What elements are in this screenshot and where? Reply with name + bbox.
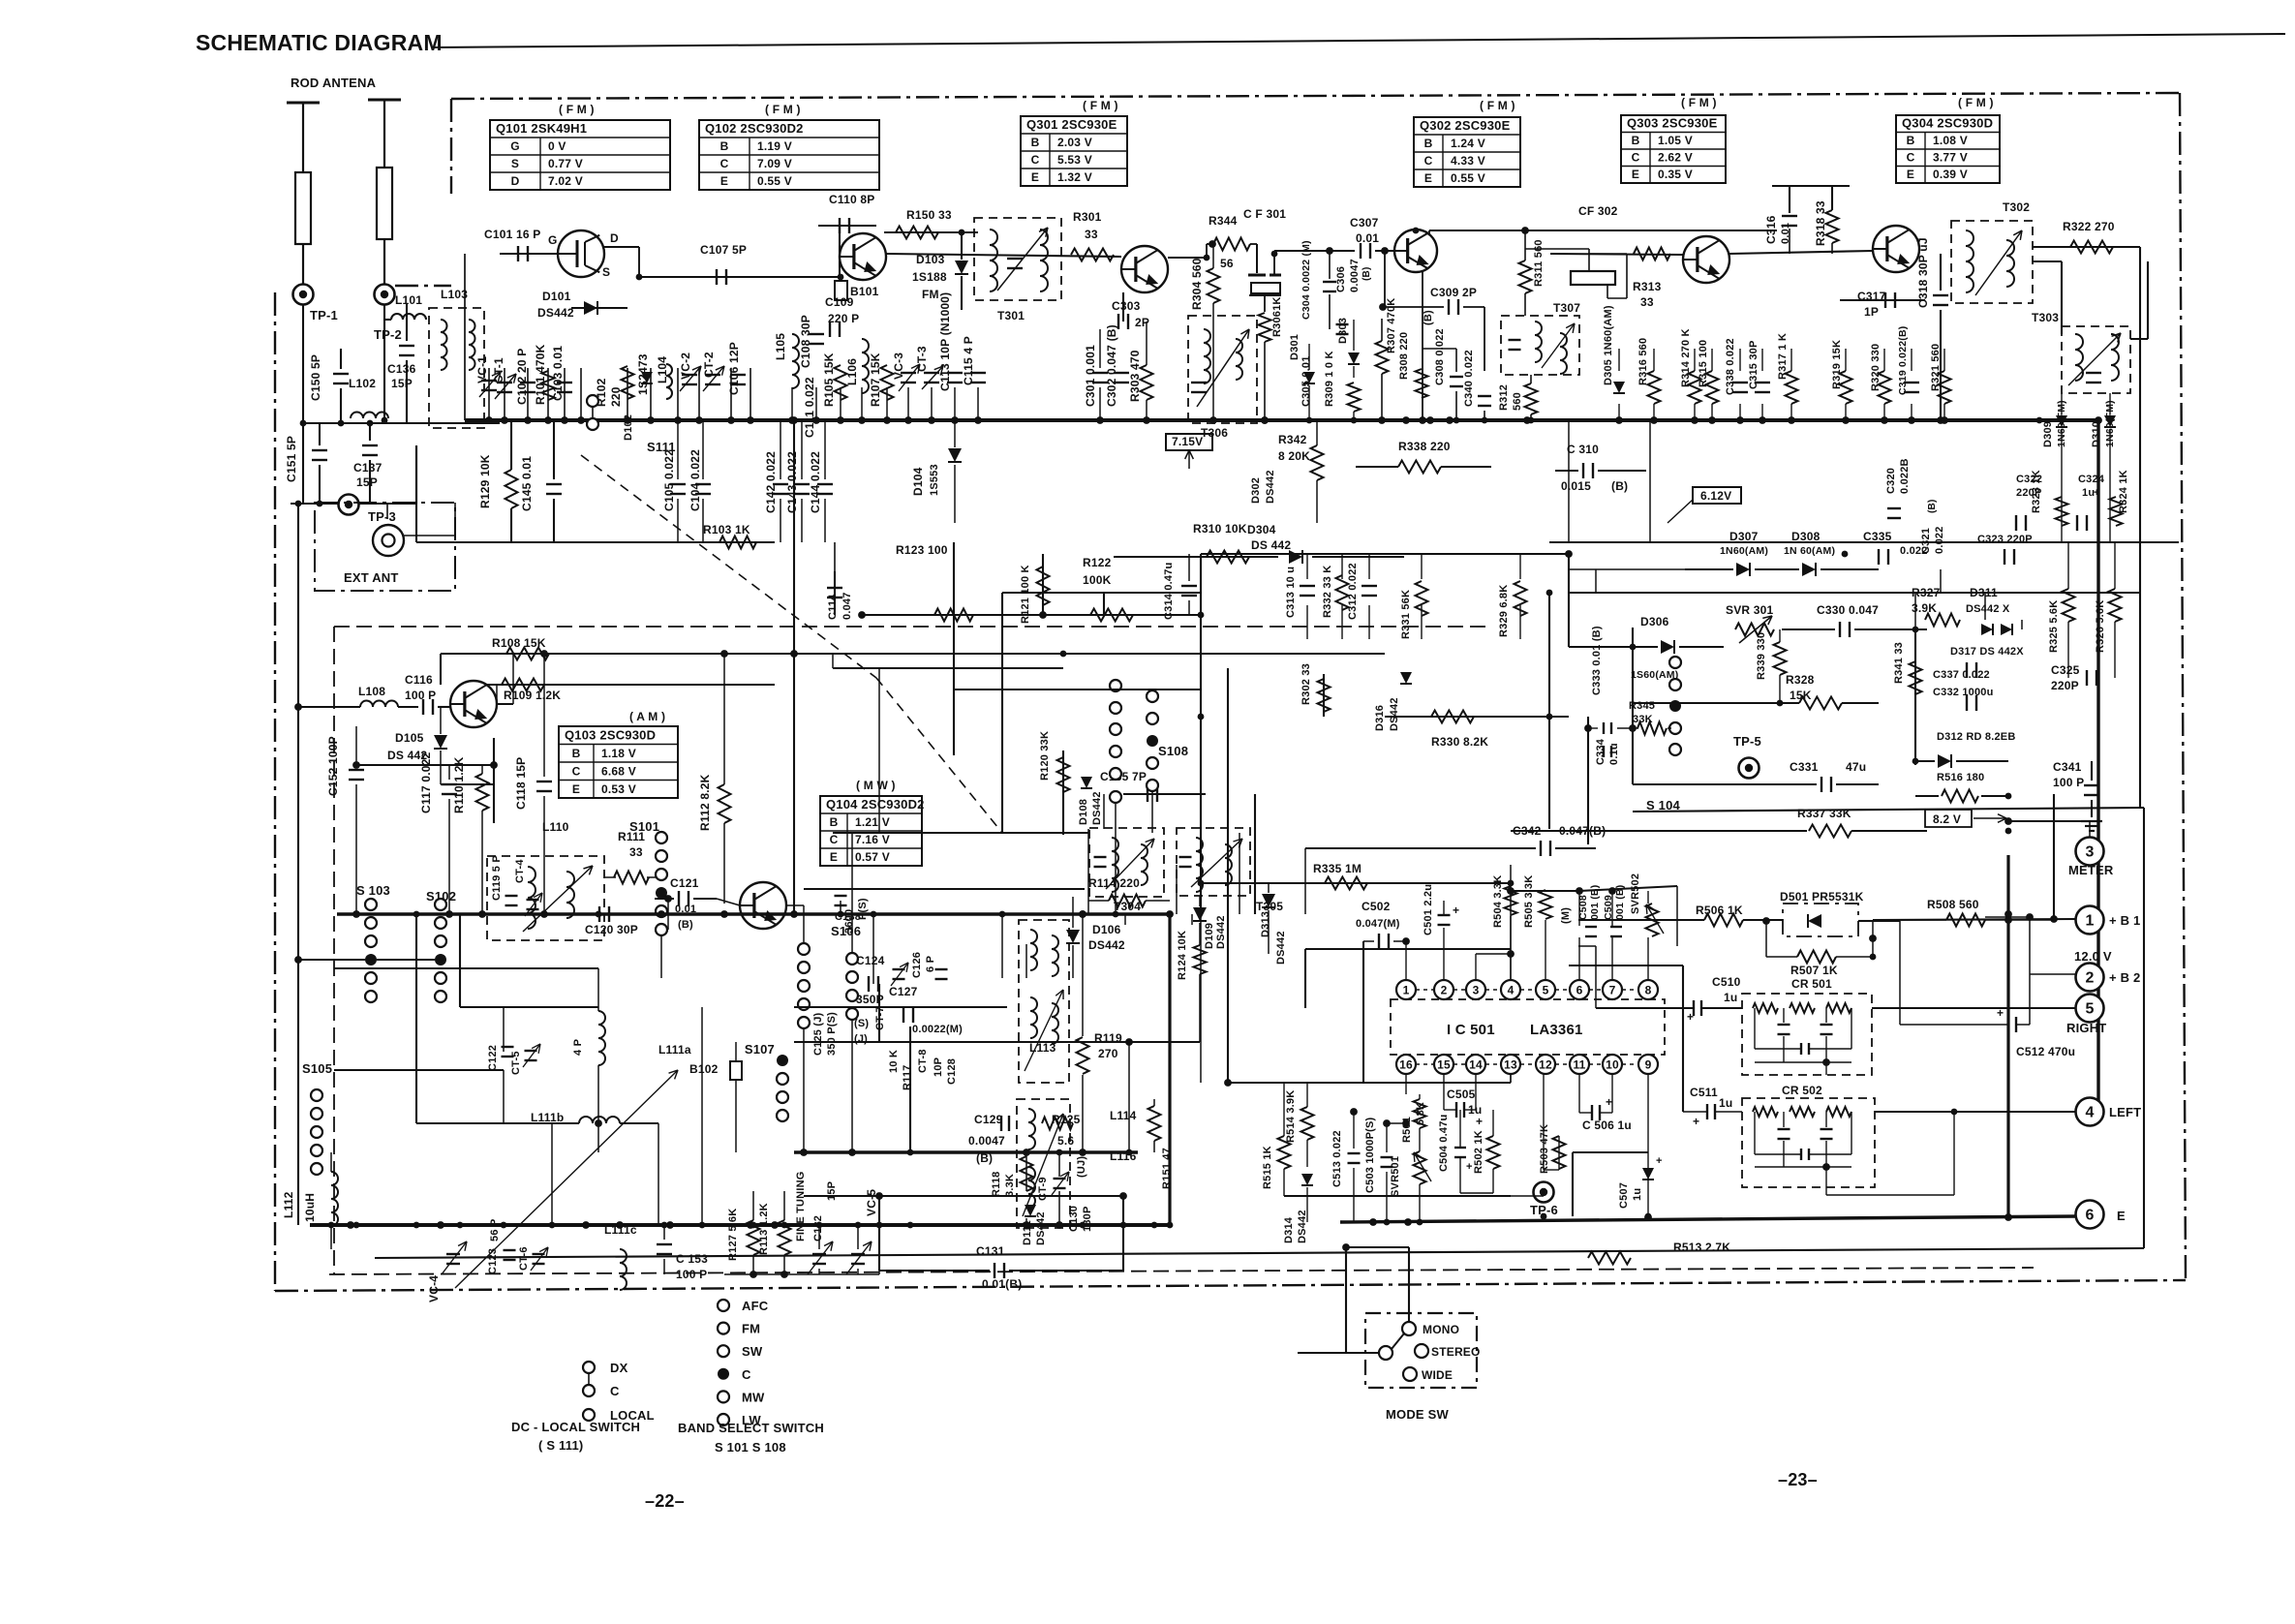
resistor R109 bbox=[502, 679, 544, 691]
svg-text:CT-9: CT-9 bbox=[1037, 1177, 1049, 1201]
svg-text:B: B bbox=[1907, 134, 1915, 147]
resistor R345 sym bbox=[1637, 722, 1667, 735]
resistor R322 bbox=[2070, 241, 2113, 254]
leader 6.12V bbox=[1668, 500, 1693, 523]
capacitor C145 bbox=[546, 483, 562, 485]
svg-text:C304 0.0022 (M): C304 0.0022 (M) bbox=[1300, 240, 1312, 320]
resistor R119 sym bbox=[1077, 1037, 1089, 1074]
resistor R307 sym bbox=[1376, 341, 1389, 374]
capacitor C330 bbox=[1839, 622, 1841, 637]
diode D313 sym bbox=[1262, 894, 1275, 907]
resistor R339 sym bbox=[1774, 642, 1787, 675]
wire Q302 collector bbox=[1428, 230, 1430, 235]
diode D102 bbox=[641, 372, 653, 383]
mode contact MONO bbox=[1402, 1322, 1416, 1335]
wire ext ant top bbox=[386, 503, 388, 519]
svg-text:0.022: 0.022 bbox=[1934, 526, 1945, 554]
svg-text:SVR 301: SVR 301 bbox=[1726, 603, 1774, 617]
resistor R344 bbox=[1213, 238, 1250, 251]
resistor R123 sym bbox=[934, 609, 973, 622]
wire drop bbox=[650, 368, 652, 420]
wire drop bbox=[750, 368, 751, 420]
svg-text:1S553: 1S553 bbox=[929, 464, 940, 496]
wire bbox=[1511, 890, 1579, 892]
wire pin13 stub bbox=[1510, 1074, 1512, 1083]
wire bbox=[1956, 760, 2008, 762]
wire bbox=[909, 1026, 911, 1152]
resistor R335 bbox=[1325, 877, 1367, 890]
wire bbox=[1755, 568, 1799, 570]
svg-text:CT-6: CT-6 bbox=[518, 1246, 530, 1271]
AM bus junction bbox=[1113, 911, 1119, 918]
wire bbox=[1845, 349, 1847, 371]
capacitor C135 bbox=[1147, 786, 1148, 802]
bottom bus junction bbox=[661, 1222, 668, 1229]
svg-text:MONO: MONO bbox=[1423, 1323, 1459, 1336]
resistor R329 bbox=[1515, 581, 1527, 616]
wire bbox=[1618, 404, 1620, 420]
svg-text:C331: C331 bbox=[1790, 760, 1819, 774]
wire drop bbox=[488, 368, 490, 420]
resistor R121 bbox=[1037, 567, 1050, 605]
wire bbox=[1124, 914, 1126, 925]
svg-text:L112: L112 bbox=[282, 1191, 295, 1218]
wire bbox=[1595, 946, 1597, 1008]
wire to RIGHT bbox=[1872, 1007, 2076, 1009]
svg-text:C303: C303 bbox=[1112, 299, 1141, 313]
svg-text:L111a: L111a bbox=[658, 1043, 691, 1057]
wire right long row bbox=[1569, 592, 2140, 594]
svg-text:R324 1K: R324 1K bbox=[2118, 470, 2129, 513]
IC pin 6 bbox=[1570, 980, 1589, 999]
bus junction bbox=[625, 417, 631, 424]
svg-text:0.01: 0.01 bbox=[1356, 231, 1379, 245]
svg-text:C308 0.022: C308 0.022 bbox=[1434, 328, 1446, 385]
gang dashed diagonal 2 bbox=[876, 678, 1002, 833]
wire C502 row top bbox=[1305, 948, 1511, 950]
capacitor C301 bbox=[1092, 372, 1108, 374]
wire bbox=[460, 1006, 598, 1008]
wire bbox=[1519, 554, 1521, 579]
wire bbox=[1341, 554, 1343, 579]
capacitor C308 sym bbox=[1450, 376, 1463, 378]
trimmer CT-7 sym bbox=[893, 968, 905, 970]
wire antenna row bbox=[303, 422, 500, 424]
resistor R129 bbox=[505, 470, 518, 508]
IC pin 11 bbox=[1570, 1055, 1589, 1074]
wire bbox=[334, 1069, 504, 1071]
diode D105 bbox=[434, 735, 447, 749]
wire drop bbox=[886, 387, 888, 420]
svg-text:1: 1 bbox=[1403, 984, 1410, 997]
svg-text:C116: C116 bbox=[405, 673, 433, 687]
svg-text:1.05 V: 1.05 V bbox=[1658, 134, 1693, 147]
wire collector row bbox=[1429, 230, 1777, 231]
wire bbox=[416, 1122, 579, 1124]
svg-text:6.68 V: 6.68 V bbox=[601, 765, 636, 779]
capacitor C150 bbox=[333, 373, 349, 375]
wire bbox=[1790, 349, 1792, 371]
bottom bus junction bbox=[750, 1222, 757, 1229]
resistor R112 bbox=[719, 784, 731, 823]
resistor R504 sym bbox=[1505, 886, 1517, 915]
long thin bottom wire bbox=[375, 1248, 2144, 1258]
diode D304 bbox=[1289, 550, 1302, 564]
svg-text:(B): (B) bbox=[678, 919, 693, 931]
wire TP-3 row bbox=[291, 503, 338, 505]
svg-text:16: 16 bbox=[1399, 1058, 1413, 1072]
svg-text:2.62 V: 2.62 V bbox=[1658, 151, 1693, 165]
bus junction bbox=[728, 417, 735, 424]
svg-text:R331 56K: R331 56K bbox=[1400, 590, 1412, 639]
inductor L105 bbox=[792, 334, 799, 388]
svg-text:C118 15P: C118 15P bbox=[514, 757, 528, 810]
voltage table Q304 bbox=[1896, 115, 2000, 183]
wire bbox=[1653, 349, 1655, 371]
wire bbox=[1694, 349, 1696, 371]
svg-text:C132: C132 bbox=[812, 1215, 824, 1241]
wire bbox=[1899, 921, 1901, 1025]
svg-text:R311 560: R311 560 bbox=[1533, 239, 1545, 287]
voltage table Q301 bbox=[1021, 116, 1127, 186]
terminal 1 +B1 bbox=[2076, 906, 2104, 935]
svg-text:R515 1K: R515 1K bbox=[1262, 1146, 1273, 1189]
wire bbox=[2147, 261, 2149, 339]
svg-text:C505: C505 bbox=[1447, 1088, 1476, 1101]
capacitor C123 sym bbox=[504, 1249, 516, 1251]
wire bbox=[1596, 1007, 1694, 1009]
bus junction bbox=[1379, 417, 1386, 424]
wire bbox=[878, 984, 880, 1042]
svg-text:I C 501: I C 501 bbox=[1447, 1022, 1495, 1038]
mode switch box bbox=[1365, 1313, 1477, 1388]
svg-text:VC-5: VC-5 bbox=[865, 1189, 878, 1216]
svg-text:C337 0.022: C337 0.022 bbox=[1933, 669, 1990, 681]
svg-text:4: 4 bbox=[2085, 1105, 2094, 1121]
resistor bbox=[1689, 371, 1701, 404]
svg-text:C504 0.47u: C504 0.47u bbox=[1438, 1115, 1450, 1172]
wire R330 row bbox=[1385, 716, 1569, 718]
voltage table Q102 bbox=[699, 120, 879, 190]
wire bbox=[2061, 261, 2063, 334]
svg-text:220 P: 220 P bbox=[828, 312, 859, 325]
heavy vertical METER bbox=[2006, 855, 2009, 1218]
svg-text:3: 3 bbox=[2085, 844, 2094, 861]
svg-text:C106 12P: C106 12P bbox=[727, 342, 741, 395]
bus junction bbox=[1759, 417, 1766, 424]
capacitor C302 bbox=[1114, 372, 1129, 374]
svg-text:G: G bbox=[548, 233, 558, 247]
wire D101 row bbox=[571, 307, 627, 309]
svg-text:C105 0.022: C105 0.022 bbox=[662, 449, 676, 511]
svg-text:L101: L101 bbox=[395, 293, 422, 307]
svg-text:R344: R344 bbox=[1209, 214, 1238, 228]
wire bbox=[1761, 404, 1763, 420]
svg-text:D105: D105 bbox=[395, 731, 424, 745]
svg-text:L114: L114 bbox=[1110, 1109, 1137, 1122]
svg-text:DS442: DS442 bbox=[1265, 470, 1276, 504]
svg-text:(B): (B) bbox=[1611, 479, 1628, 493]
wire bbox=[1858, 920, 1873, 922]
svg-text:13: 13 bbox=[1504, 1058, 1517, 1072]
transistor Q301 bbox=[1121, 246, 1168, 292]
wire C334 col bbox=[1587, 717, 1589, 844]
wire pin1 stub bbox=[1405, 941, 1407, 980]
svg-text:4 P: 4 P bbox=[572, 1039, 584, 1056]
svg-text:L102: L102 bbox=[349, 377, 376, 390]
svg-text:DS442: DS442 bbox=[1088, 938, 1125, 952]
wire EXT ANT up bbox=[415, 445, 417, 504]
capacitor C118 bbox=[536, 781, 552, 782]
test point TP-3 bbox=[339, 495, 359, 515]
wire bbox=[340, 349, 342, 369]
svg-text:MODE SW: MODE SW bbox=[1386, 1407, 1449, 1422]
wire pin11 stub bbox=[1578, 1074, 1580, 1113]
bottom bus junction bbox=[1167, 1222, 1174, 1229]
capacitor C127 sym bbox=[903, 1007, 904, 1023]
svg-text:C115 4 P: C115 4 P bbox=[962, 336, 975, 385]
svg-text:E: E bbox=[1632, 168, 1639, 181]
IC pin 3 bbox=[1466, 980, 1485, 999]
wire R341 col bbox=[1914, 629, 1916, 765]
resistor bbox=[1706, 371, 1719, 404]
svg-text:C: C bbox=[742, 1367, 751, 1382]
AGC long wire bbox=[441, 653, 1385, 655]
wire bbox=[833, 832, 1002, 834]
wire drop bbox=[815, 387, 817, 420]
svg-text:C121: C121 bbox=[670, 876, 699, 890]
bottom bus junction bbox=[907, 1222, 914, 1229]
wire bbox=[1943, 349, 1945, 371]
wire bbox=[1940, 569, 1942, 593]
resistor R120 bbox=[1057, 757, 1070, 792]
svg-text:R127 5.6K: R127 5.6K bbox=[727, 1209, 739, 1261]
svg-text:10P: 10P bbox=[933, 1057, 944, 1077]
wire bbox=[1789, 229, 1790, 254]
bus junction bbox=[1909, 417, 1915, 424]
resistor R311 sym bbox=[1519, 260, 1532, 293]
svg-text:2.03 V: 2.03 V bbox=[1057, 136, 1092, 149]
svg-text:C117 0.022: C117 0.022 bbox=[419, 751, 433, 813]
svg-text:9: 9 bbox=[1645, 1058, 1652, 1072]
svg-text:S108: S108 bbox=[1158, 744, 1188, 758]
wire bbox=[1782, 628, 1835, 630]
terminal 6 E bbox=[2076, 1201, 2104, 1229]
resistor bbox=[1840, 371, 1852, 404]
EXT ANT enclosure bbox=[315, 503, 455, 591]
capacitor C325 bbox=[2086, 670, 2088, 686]
wire bbox=[1421, 554, 1423, 579]
wire bbox=[1685, 568, 1733, 570]
svg-text:R301: R301 bbox=[1073, 210, 1102, 224]
wire bbox=[1569, 646, 1658, 648]
resistor R502 sym bbox=[1487, 1136, 1500, 1169]
IC pin 4 bbox=[1501, 980, 1520, 999]
svg-text:2P: 2P bbox=[1135, 316, 1149, 329]
svg-text:4.33 V: 4.33 V bbox=[1451, 154, 1485, 168]
capacitor C101 bbox=[517, 246, 519, 261]
svg-text:6 P: 6 P bbox=[925, 956, 936, 972]
resistor R507 sym bbox=[1797, 951, 1836, 964]
resistor R324 sym bbox=[2110, 497, 2123, 526]
diode D312 bbox=[1938, 754, 1951, 768]
svg-text:( S 111): ( S 111) bbox=[538, 1438, 583, 1453]
capacitor C320 bbox=[1887, 507, 1901, 509]
resistor bbox=[1648, 371, 1661, 404]
svg-text:1N 60(AM): 1N 60(AM) bbox=[1784, 545, 1835, 557]
border top dash-dot bbox=[451, 93, 2180, 99]
wire bbox=[1151, 792, 1153, 833]
bottom bus junction bbox=[1120, 1222, 1127, 1229]
ground bbox=[2081, 820, 2102, 822]
diode bbox=[1613, 382, 1625, 393]
capacitor C122 sym bbox=[502, 1046, 514, 1048]
resistor in CR501 bbox=[1753, 1003, 1778, 1013]
wire C511 feed bbox=[1682, 965, 1684, 1112]
wire C317 row bbox=[1840, 299, 1925, 301]
bus junction bbox=[525, 417, 532, 424]
svg-text:DS442: DS442 bbox=[1275, 931, 1287, 965]
varicap VC-5 sym bbox=[851, 1253, 865, 1255]
wire bbox=[1122, 292, 1124, 322]
resistor R505 sym bbox=[1540, 890, 1552, 919]
svg-text:C127: C127 bbox=[889, 985, 918, 998]
potentiometer SVR501 sym bbox=[1414, 1151, 1426, 1184]
svg-text:33: 33 bbox=[1640, 295, 1654, 309]
capacitor C137 bbox=[362, 444, 378, 446]
band select legend column bbox=[718, 1300, 729, 1311]
svg-text:100 P: 100 P bbox=[405, 689, 436, 702]
wire drop bbox=[977, 387, 979, 420]
wire bbox=[1001, 914, 1003, 978]
bottom bus junction bbox=[1151, 1222, 1158, 1229]
svg-text:0.047(M): 0.047(M) bbox=[1356, 918, 1400, 930]
svg-text:R3061K: R3061K bbox=[1271, 296, 1283, 337]
svg-text:1.19 V: 1.19 V bbox=[757, 139, 792, 153]
svg-text:C503 1000P(S): C503 1000P(S) bbox=[1364, 1117, 1376, 1193]
svg-text:C512 470u: C512 470u bbox=[2016, 1045, 2075, 1058]
svg-text:R341 33: R341 33 bbox=[1893, 642, 1905, 684]
svg-text:R129 10K: R129 10K bbox=[478, 454, 492, 508]
diode D501 sym bbox=[1808, 914, 1821, 928]
IC 501 LA3361 package bbox=[1391, 999, 1665, 1055]
resistor R513 sym bbox=[1588, 1252, 1631, 1265]
svg-text:R123 100: R123 100 bbox=[896, 543, 948, 557]
wire right row b bbox=[1549, 541, 2041, 543]
svg-text:CF 302: CF 302 bbox=[1578, 204, 1618, 218]
capacitor C104 bbox=[695, 483, 711, 485]
wire bbox=[1368, 605, 1370, 639]
bus junction bbox=[884, 417, 891, 424]
wire pin16 stub bbox=[1405, 1074, 1407, 1094]
svg-text:10 K: 10 K bbox=[888, 1050, 900, 1073]
svg-text:C 506 1u: C 506 1u bbox=[1582, 1118, 1632, 1132]
svg-text:WIDE: WIDE bbox=[1422, 1368, 1453, 1382]
capacitor C504 sym bbox=[1454, 1147, 1466, 1149]
capacitor C306 sym bbox=[1336, 323, 1349, 325]
resistor R302 bbox=[1318, 679, 1331, 712]
svg-text:D301: D301 bbox=[1289, 334, 1300, 360]
wire R122 row bbox=[862, 614, 1201, 616]
wire bbox=[1009, 1270, 1123, 1272]
svg-text:S107: S107 bbox=[745, 1042, 775, 1057]
svg-text:0.53 V: 0.53 V bbox=[601, 782, 636, 796]
svg-text:Q104 2SC930D2: Q104 2SC930D2 bbox=[826, 797, 925, 812]
wire bbox=[1511, 1195, 1544, 1197]
svg-text:C: C bbox=[572, 765, 581, 779]
capacitor C138 sym bbox=[835, 895, 847, 897]
wire drop bbox=[840, 387, 841, 420]
wire TP6 row bbox=[1284, 1195, 1511, 1197]
svg-text:+: + bbox=[1656, 1155, 1663, 1167]
svg-text:4: 4 bbox=[1508, 984, 1515, 997]
svg-text:–23–: –23– bbox=[1778, 1470, 1818, 1489]
svg-text:100 P: 100 P bbox=[676, 1268, 707, 1281]
svg-text:D501 PR5531K: D501 PR5531K bbox=[1780, 890, 1864, 904]
capacitor C110 bbox=[839, 218, 841, 233]
wire to LEFT bbox=[1875, 1111, 2076, 1113]
wire R335 row bbox=[1201, 882, 1511, 884]
resistor R514 sym bbox=[1301, 1107, 1314, 1140]
svg-text:C136: C136 bbox=[387, 362, 416, 376]
svg-text:B: B bbox=[1424, 137, 1433, 150]
capacitor C331 bbox=[1821, 777, 1822, 792]
audio box top bbox=[1633, 808, 2144, 812]
svg-text:11: 11 bbox=[1573, 1058, 1585, 1072]
svg-text:C314 0.47u: C314 0.47u bbox=[1163, 563, 1175, 620]
capacitor bbox=[817, 483, 833, 485]
capacitor C106 bbox=[730, 374, 746, 376]
wire D304 row bbox=[1312, 556, 1404, 558]
svg-text:B102: B102 bbox=[689, 1062, 719, 1076]
svg-text:0.39 V: 0.39 V bbox=[1933, 168, 1968, 181]
wire bbox=[660, 935, 662, 978]
wire bbox=[512, 654, 514, 704]
wire bbox=[1984, 593, 1986, 620]
svg-text:C342: C342 bbox=[1513, 824, 1542, 838]
svg-text:D101: D101 bbox=[542, 290, 571, 303]
svg-text:D: D bbox=[610, 231, 619, 245]
wire bbox=[1831, 243, 1833, 254]
IC pin 7 bbox=[1603, 980, 1622, 999]
wire to R313 bbox=[1588, 253, 1627, 255]
svg-text:C: C bbox=[1424, 154, 1433, 168]
svg-text:E: E bbox=[720, 174, 728, 188]
wire bbox=[1304, 949, 1306, 1008]
svg-text:(B): (B) bbox=[1423, 310, 1434, 325]
diode D311 bbox=[1981, 624, 1993, 635]
resistor in CR502 bbox=[1753, 1107, 1778, 1117]
wire Q302 to Q303 bbox=[1550, 254, 1683, 255]
audio box right bbox=[2143, 808, 2145, 1248]
wire B2 row bbox=[2030, 973, 2076, 975]
resistor R101 bbox=[542, 371, 555, 400]
wire bbox=[2109, 430, 2111, 542]
svg-text:0.0022(M): 0.0022(M) bbox=[912, 1024, 963, 1035]
svg-text:56 P: 56 P bbox=[489, 1219, 501, 1241]
svg-text:R507 1K: R507 1K bbox=[1790, 964, 1838, 977]
wire bbox=[1228, 1082, 1363, 1084]
svg-text:15P: 15P bbox=[356, 475, 378, 489]
svg-text:C341: C341 bbox=[2053, 760, 2082, 774]
wire bbox=[319, 465, 321, 504]
network CR502 box bbox=[1742, 1098, 1875, 1187]
wire bbox=[510, 508, 512, 542]
wire bbox=[693, 898, 717, 900]
svg-text:R325 5.6K: R325 5.6K bbox=[2048, 600, 2060, 653]
svg-text:SCHEMATIC DIAGRAM: SCHEMATIC DIAGRAM bbox=[196, 30, 443, 55]
resistor R118 sym bbox=[1021, 1156, 1033, 1191]
